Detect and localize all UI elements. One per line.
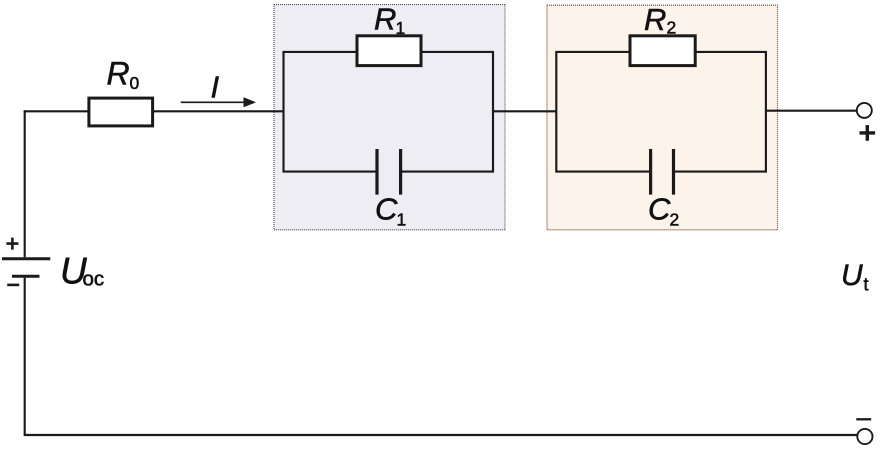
minus sign at negative terminal [856, 418, 871, 420]
battery bottom plate (negative) [12, 275, 40, 278]
battery minus sign [7, 284, 19, 287]
wire: bottom return [24, 434, 857, 436]
resistor R0 [89, 98, 153, 126]
svg-text:2: 2 [670, 209, 680, 229]
svg-text:1: 1 [397, 209, 407, 229]
wire: battery to R0 [24, 110, 88, 112]
negative terminal circle [857, 429, 872, 444]
battery plus sign [6, 238, 18, 250]
wire: RC group 1 to RC group 2 [493, 110, 556, 112]
positive terminal circle [857, 103, 872, 118]
battery top plate (positive) [2, 257, 50, 260]
plus sign at positive terminal [860, 125, 876, 141]
svg-text:U: U [841, 259, 863, 292]
wire: RC group 2 to positive terminal [766, 110, 857, 112]
RC loop 2 (parallel branch frame) [556, 52, 766, 172]
wire: R0 to RC group 1 [154, 110, 284, 112]
svg-text:C: C [648, 192, 671, 227]
svg-text:oc: oc [83, 268, 105, 291]
svg-text:C: C [375, 192, 398, 227]
capacitor C2 [651, 149, 674, 195]
svg-text:1: 1 [396, 18, 406, 38]
resistor R1 [357, 36, 421, 66]
wire: left vertical battery top [24, 110, 26, 257]
RC loop 1 (parallel branch frame) [284, 52, 494, 172]
svg-text:2: 2 [667, 18, 677, 38]
svg-text:R: R [644, 2, 666, 37]
wire: left vertical battery bottom [24, 278, 26, 435]
svg-text:0: 0 [130, 73, 140, 93]
resistor R2 [630, 36, 695, 66]
RC group 2 shaded box (R2C2 net) [547, 5, 778, 230]
svg-text:I: I [211, 70, 220, 105]
svg-text:R: R [374, 2, 396, 37]
svg-text:R: R [107, 55, 130, 91]
svg-text:t: t [864, 275, 869, 295]
current arrow I [181, 101, 246, 103]
capacitor C1 [377, 149, 401, 195]
RC group 1 shaded box (R1C1 net) [274, 5, 505, 230]
